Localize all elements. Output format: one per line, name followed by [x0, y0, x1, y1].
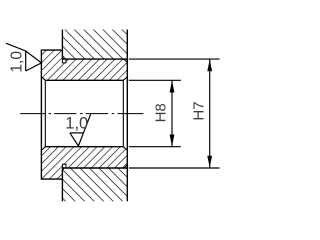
sleeve outer bottom / housing bore bottom: [62, 167, 127, 169]
flange top edge: [41, 49, 63, 51]
housing bore entrance chamfer bottom: [62, 168, 64, 171]
H8 extension line bottom: [129, 146, 181, 148]
bushing lower wall hatch: [41, 147, 127, 179]
housing left face / flange back: [61, 30, 63, 60]
H7 extension line bottom: [129, 167, 220, 169]
bushing left end face: [40, 50, 42, 179]
roughness symbol left (flange face): [6, 43, 42, 71]
H8 extension line top: [129, 79, 181, 81]
sleeve outer top / housing bore top: [62, 58, 127, 60]
svg-text:1,0: 1,0: [65, 115, 88, 133]
flange bottom edge: [41, 178, 63, 180]
H8 arrow up: [170, 81, 175, 93]
bore chamfer diag bottom-left: [42, 147, 45, 150]
bore top: [45, 79, 123, 81]
right face: [126, 30, 128, 202]
undercut groove top: [62, 59, 66, 63]
H7 arrow up: [207, 59, 212, 71]
housing upper block hatch: [62, 30, 127, 60]
bushing upper wall hatch: [41, 50, 127, 80]
undercut groove bottom: [62, 164, 66, 168]
sleeve outer chamfer top-right: [124, 59, 127, 62]
svg-text:1,0: 1,0: [9, 51, 26, 73]
H8 arrow down: [170, 135, 175, 147]
bore chamfer edge right: [122, 80, 124, 146]
svg-text:H7: H7: [191, 101, 208, 120]
bore chamfer diag top-right: [123, 77, 127, 80]
H7 dimension line: [209, 59, 211, 167]
bore chamfer diag bottom-right: [123, 147, 127, 150]
H8 dimension line: [171, 81, 173, 147]
sleeve outer chamfer bottom-right: [124, 165, 127, 168]
H7 extension line top: [129, 58, 220, 60]
bore bottom: [45, 146, 123, 148]
housing lower block hatch: [62, 168, 127, 201]
bore chamfer diag top-left: [42, 77, 45, 80]
centerline (axis): [20, 113, 143, 115]
housing bore entrance chamfer top: [62, 56, 64, 59]
bore chamfer edge left: [44, 80, 46, 146]
H7 arrow down: [207, 156, 212, 168]
roughness symbol bore (points down): [70, 114, 91, 146]
svg-text:H8: H8: [153, 103, 170, 122]
